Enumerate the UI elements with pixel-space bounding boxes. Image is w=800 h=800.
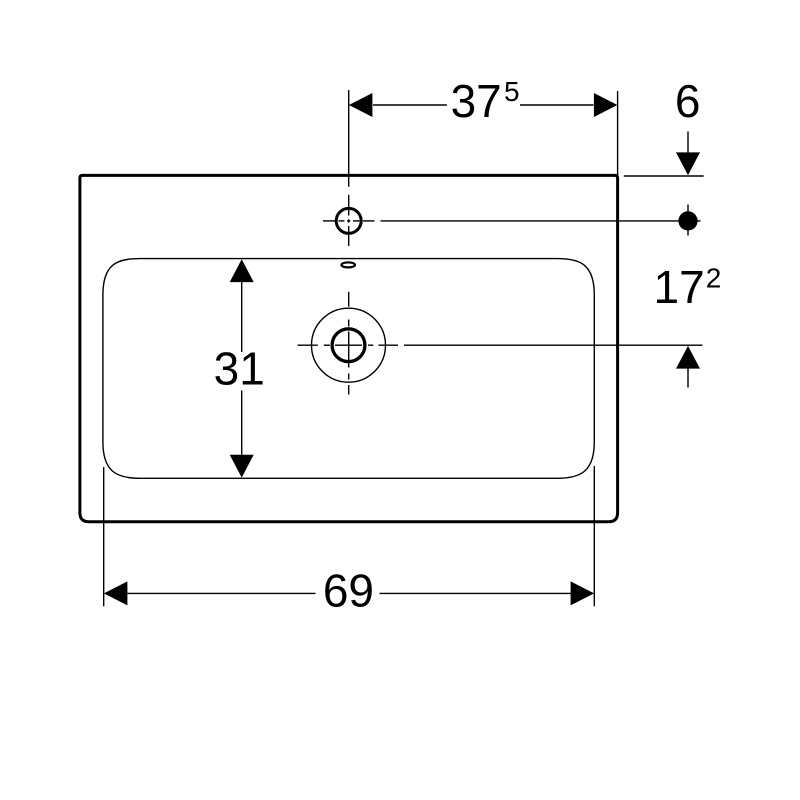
svg-text:31: 31	[214, 343, 265, 395]
svg-text:2: 2	[706, 263, 722, 294]
svg-text:69: 69	[323, 564, 374, 616]
svg-text:5: 5	[504, 76, 520, 107]
svg-text:17: 17	[654, 261, 705, 313]
svg-text:6: 6	[675, 75, 701, 127]
svg-text:37: 37	[451, 75, 502, 127]
